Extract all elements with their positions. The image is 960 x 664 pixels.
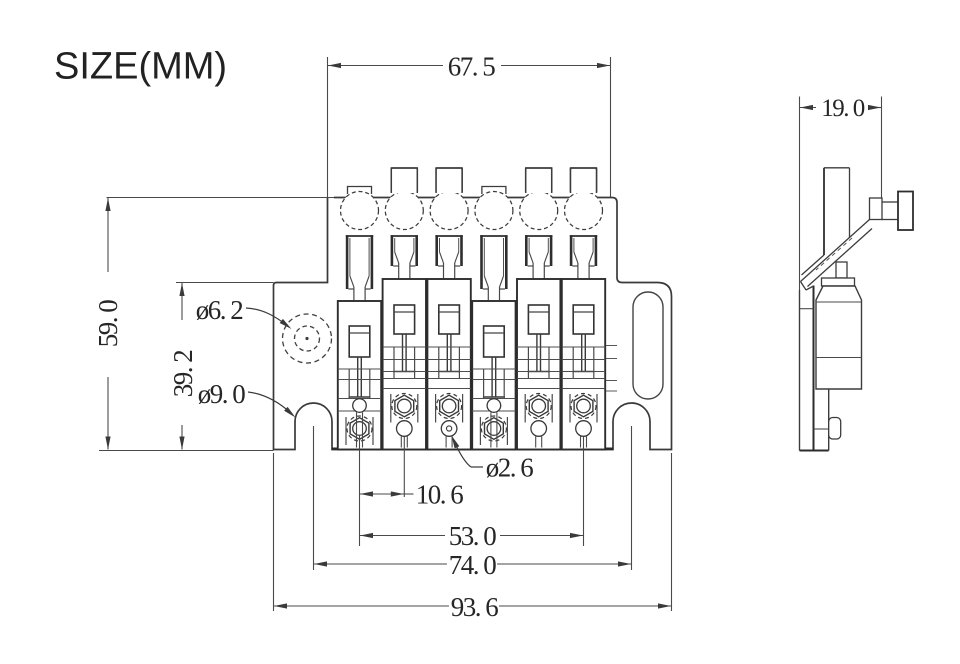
hex lock screw S5 — [526, 394, 551, 419]
svg-text:53. 0: 53. 0 — [449, 521, 497, 551]
svg-text:39. 2: 39. 2 — [168, 350, 198, 398]
dimension 10.6 — [360, 436, 464, 546]
dimension 53.0 — [360, 437, 584, 551]
fine tuner screw cap S1 — [348, 187, 372, 195]
string clamp box S1 — [349, 326, 370, 357]
svg-text:74. 0: 74. 0 — [449, 550, 497, 580]
fine tuner screw shank S5 — [526, 168, 552, 193]
fine tuner knob S2 — [385, 192, 423, 230]
fine tuner knob S5 — [520, 192, 558, 230]
side view fine tuner screw — [824, 168, 850, 255]
string hole S6 — [576, 421, 592, 448]
clamp screw shaft S3 — [438, 334, 460, 372]
stadium slot — [633, 292, 663, 399]
saddle body S4 — [472, 301, 515, 450]
side view mounting plate — [800, 286, 829, 451]
dimension 59.0 vertical — [93, 198, 334, 451]
string hole S5 — [531, 421, 547, 448]
string clamp box S4 — [484, 326, 505, 357]
fine tuner knob S6 — [565, 192, 603, 230]
hex pocket S1 — [346, 417, 373, 445]
fine tuner screw S6 — [571, 168, 597, 192]
side view saddle block — [816, 262, 862, 451]
hex lock screw S4 — [481, 416, 506, 441]
svg-text:93. 6: 93. 6 — [451, 592, 499, 622]
string clamp box S2 — [394, 305, 415, 334]
svg-text:ø6. 2: ø6. 2 — [196, 295, 244, 325]
svg-text:59. 0: 59. 0 — [93, 300, 123, 348]
string hole S1 — [353, 399, 367, 448]
title SIZE(MM) — [54, 46, 227, 88]
svg-text:19. 0: 19. 0 — [821, 95, 865, 122]
saddle body S5 — [517, 279, 560, 450]
side view lever arm — [801, 220, 873, 291]
hex pocket S3 — [436, 394, 463, 423]
dimension 67.5 horizontal — [328, 52, 611, 283]
string insert block S3 — [435, 235, 462, 279]
saddle body detail lines S4 — [472, 369, 515, 411]
saddle body detail lines S3 — [427, 347, 470, 389]
hex pocket S2 — [391, 394, 418, 423]
fine tuner knob S3 — [430, 192, 468, 230]
hex pocket S4 — [480, 417, 507, 445]
clamp screw shaft S4 — [483, 357, 505, 397]
fine tuner knob S1 — [341, 192, 379, 230]
string insert block S1 — [346, 235, 373, 301]
svg-text:67. 5: 67. 5 — [448, 52, 496, 82]
clamp screw shaft S2 — [393, 334, 415, 372]
saddle body S6 — [562, 279, 605, 450]
dimension 74.0 — [314, 426, 632, 580]
saddle body S3 — [427, 279, 470, 450]
saddle body detail lines S6 — [562, 347, 605, 389]
fine tuner screw S5 — [526, 168, 552, 192]
string insert block S5 — [525, 235, 552, 279]
string hole S3 — [441, 421, 457, 448]
clamp screw shaft S5 — [528, 334, 550, 372]
string clamp box S5 — [528, 305, 549, 334]
svg-text:10. 6: 10. 6 — [416, 480, 464, 510]
string insert block S4 — [480, 235, 507, 301]
string hole S4 — [487, 399, 501, 448]
string clamp box S3 — [439, 305, 460, 334]
hex pocket S5 — [525, 394, 552, 423]
base plate outline — [274, 198, 672, 450]
fine tuner screw S3 — [436, 168, 462, 192]
label dia 9.0 with leader — [198, 379, 296, 418]
saddle body detail lines S5 — [517, 347, 560, 389]
fine tuner screw shank S2 — [391, 168, 417, 193]
saddle body detail lines S2 — [383, 347, 426, 389]
clamp screw shaft S1 — [349, 357, 371, 397]
label dia 2.6 with leader — [452, 436, 534, 483]
string hole S2 — [397, 421, 413, 448]
fine tuner screw cap S4 — [482, 187, 506, 195]
hex pocket S6 — [570, 394, 597, 423]
plate bottom edge (thick) — [332, 447, 613, 450]
hex lock screw S1 — [347, 416, 372, 441]
hex lock screw S3 — [437, 394, 462, 419]
side view foot — [829, 418, 841, 440]
mounting hole 6.2 — [283, 314, 332, 363]
dimension 93.6 — [274, 453, 672, 622]
string clamp box S6 — [573, 305, 594, 334]
string insert block S6 — [570, 235, 597, 279]
fine tuner screw shank S6 — [571, 168, 597, 193]
svg-text:SIZE(MM): SIZE(MM) — [54, 46, 227, 88]
plate shelf lines — [605, 346, 617, 392]
fine tuner knob S4 — [475, 192, 513, 230]
clamp screw shaft S6 — [573, 334, 595, 372]
hex lock screw S2 — [392, 394, 417, 419]
dimension 19.0 — [800, 95, 882, 290]
dimension 39.2 vertical — [168, 283, 274, 450]
label dia 6.2 with leader — [196, 295, 292, 329]
side view tuner knob — [870, 192, 914, 231]
svg-text:ø2. 6: ø2. 6 — [486, 453, 534, 483]
hex lock screw S6 — [571, 394, 596, 419]
fine tuner screw S2 — [391, 168, 417, 192]
fine tuner screw shank S3 — [436, 168, 462, 193]
svg-text:ø9. 0: ø9. 0 — [198, 379, 246, 409]
string insert block S2 — [391, 235, 418, 279]
saddle body S1 — [338, 301, 381, 450]
saddle body detail lines S1 — [338, 369, 381, 411]
saddle body S2 — [383, 279, 426, 450]
